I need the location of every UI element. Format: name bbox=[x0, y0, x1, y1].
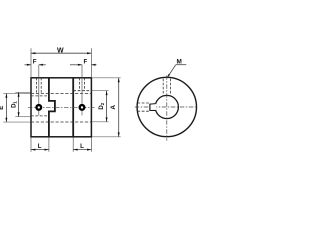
svg-text:W: W bbox=[57, 47, 64, 54]
slit hidden lines (left) bbox=[137, 102, 149, 104]
svg-text:A: A bbox=[110, 105, 117, 110]
extension lines for E bbox=[3, 92, 30, 94]
svg-text:L: L bbox=[80, 143, 84, 150]
part outline (side view body) bbox=[31, 78, 91, 137]
front view outer circle bbox=[137, 77, 196, 136]
extension line right edge (top) bbox=[90, 48, 92, 78]
hub divider right bbox=[72, 78, 74, 137]
hub divider left with slot jog bbox=[49, 78, 55, 137]
dimension A bbox=[118, 78, 120, 137]
extension lines for D1 bbox=[15, 91, 30, 93]
dimension L right bbox=[73, 149, 91, 151]
front view horizontal centerline bbox=[135, 106, 196, 108]
screw axis left (extension to F dim) bbox=[38, 65, 40, 116]
svg-text:D1: D1 bbox=[11, 101, 17, 108]
dimension F right bbox=[70, 64, 82, 66]
bore hidden line top full width bbox=[31, 92, 91, 94]
dimension L left bbox=[31, 149, 49, 151]
screw hole left hub hidden lines bbox=[35, 78, 37, 93]
front view bore circle bbox=[155, 95, 178, 118]
extension lines for D2 bbox=[92, 90, 109, 92]
svg-text:L: L bbox=[38, 143, 42, 150]
extension lines for L dims bbox=[30, 138, 32, 152]
leader line M bbox=[176, 64, 187, 66]
svg-text:D2: D2 bbox=[99, 102, 105, 109]
front view vertical centerline bbox=[166, 75, 168, 140]
tapped hole hidden lines (top) bbox=[162, 79, 164, 96]
set screw right bbox=[80, 105, 85, 110]
svg-text:F: F bbox=[84, 59, 88, 66]
screw hole right hub hidden lines bbox=[79, 78, 81, 91]
extension lines for A bbox=[92, 77, 121, 79]
extension line left edge (top) bbox=[30, 48, 32, 78]
dimension E bbox=[5, 93, 7, 122]
right hub bore D2 hidden top bbox=[73, 90, 91, 92]
set screw left bbox=[36, 105, 41, 110]
screw axis right (extension to F dim) bbox=[81, 65, 83, 116]
dimension D2 bbox=[106, 91, 108, 122]
svg-text:M: M bbox=[177, 59, 182, 66]
dimension D1 bbox=[18, 92, 20, 116]
bore hidden line bottom full width bbox=[31, 121, 91, 123]
slit end line bbox=[149, 104, 151, 111]
slot notch at bore bbox=[149, 104, 156, 111]
dimension F left bbox=[25, 64, 32, 66]
dimension W line bbox=[31, 52, 91, 54]
svg-text:F: F bbox=[33, 59, 37, 66]
left hub bore D1 hidden bottom bbox=[31, 115, 49, 117]
left hub bore D1 hidden top bbox=[31, 95, 49, 97]
main centerline of side view bbox=[28, 106, 95, 108]
svg-text:E: E bbox=[0, 106, 5, 110]
